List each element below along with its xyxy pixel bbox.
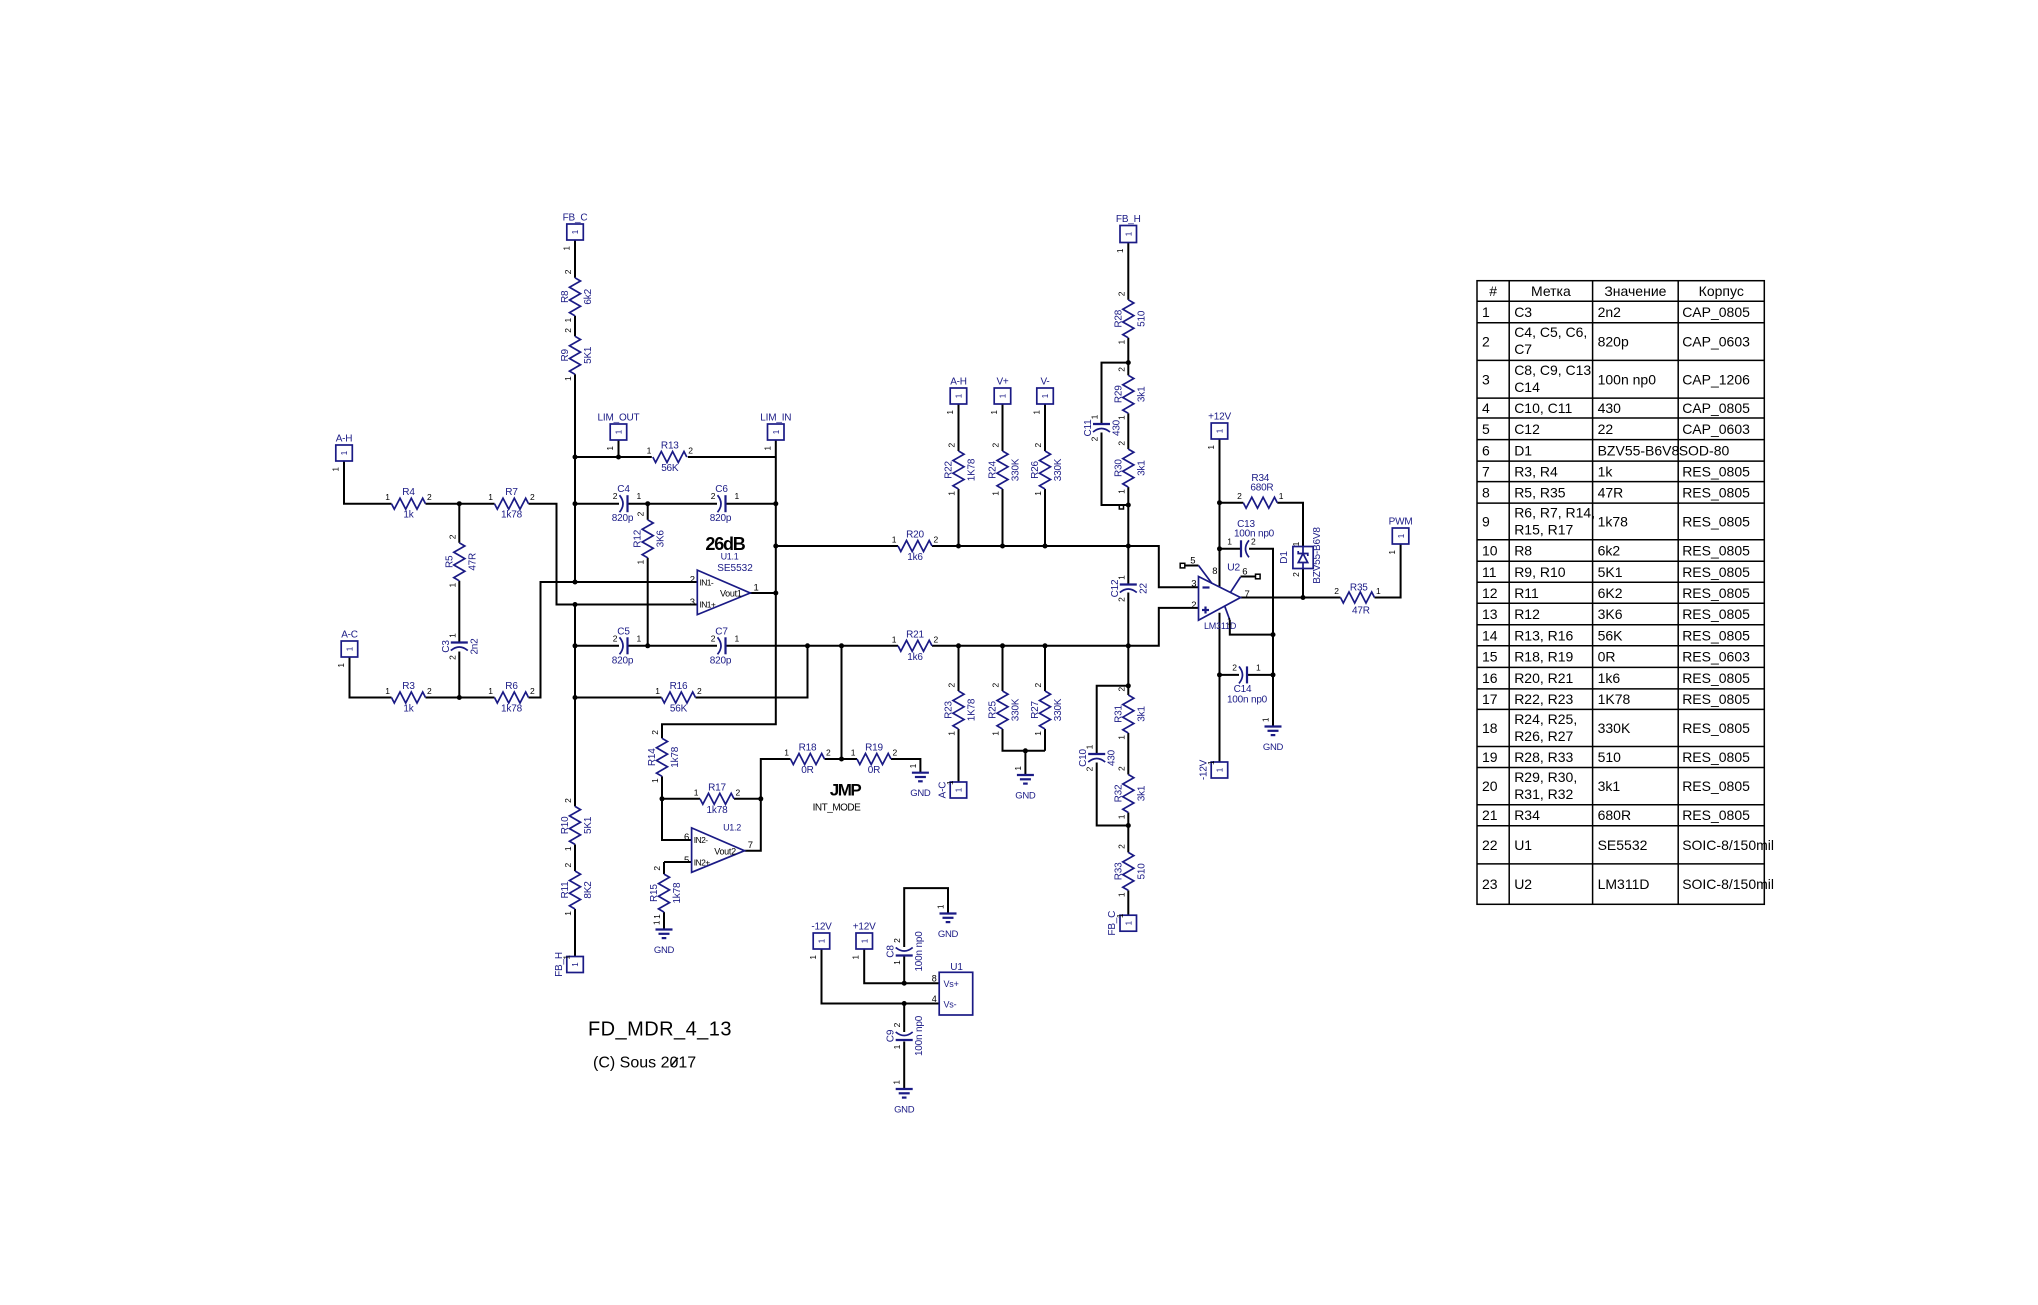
svg-text:1: 1 [1116,913,1125,918]
wire +12V to Vs+ [864,949,939,983]
svg-text:U1: U1 [950,962,963,973]
svg-text:8: 8 [1482,484,1490,500]
svg-text:1: 1 [1216,428,1225,433]
svg-text:1k6: 1k6 [907,552,923,563]
svg-text:20: 20 [1482,778,1498,794]
svg-text:1: 1 [385,492,390,502]
svg-text:1: 1 [694,787,699,797]
svg-text:GND: GND [910,788,931,799]
svg-text:1: 1 [1207,444,1216,449]
wire C4 to R12 node [629,503,648,505]
comparator U2 pin stubs [1199,566,1261,627]
svg-text:47R: 47R [1352,606,1370,617]
svg-text:GND: GND [894,1105,915,1116]
resistor R27 [1030,683,1064,736]
wire R26 to R20 line [1044,489,1046,546]
capacitor C8 [886,931,926,972]
svg-text:GND: GND [654,945,675,956]
svg-text:Vout2: Vout2 [714,846,736,856]
svg-text:RES_0805: RES_0805 [1682,691,1750,707]
wire LIM_OUT line left [575,456,652,458]
svg-text:1: 1 [990,409,999,414]
svg-text:2: 2 [947,443,957,448]
svg-text:CAP_0805: CAP_0805 [1682,304,1750,320]
svg-text:R31, R32: R31, R32 [1514,786,1573,802]
svg-text:510: 510 [1136,863,1147,880]
wire IN2+ entry [664,861,692,863]
resistor R25 [988,683,1022,736]
svg-text:1: 1 [784,748,789,758]
resistor R15 [649,866,683,919]
svg-text:23: 23 [1482,876,1498,892]
svg-text:SOIC-8/150mil: SOIC-8/150mil [1682,837,1774,853]
svg-text:LM311D: LM311D [1598,876,1650,892]
svg-text:3K6: 3K6 [1598,606,1623,622]
svg-text:2: 2 [1116,291,1126,296]
svg-text:1: 1 [1116,489,1126,494]
svg-text:6k2: 6k2 [583,288,594,304]
svg-text:1: 1 [1227,617,1232,627]
svg-text:2: 2 [1090,436,1100,441]
svg-text:2: 2 [826,748,831,758]
wire C11 bottom branch [1102,433,1129,506]
svg-text:FB_H: FB_H [1116,214,1141,225]
wire C13 right corner down [1249,549,1273,675]
svg-text:3k1: 3k1 [1136,386,1147,402]
svg-text:1: 1 [1216,767,1225,772]
svg-text:1: 1 [653,920,662,925]
svg-text:680R: 680R [1250,483,1273,494]
svg-text:10: 10 [1482,543,1498,559]
svg-text:2: 2 [711,491,716,501]
svg-text:1: 1 [763,445,772,450]
svg-text:R19: R19 [865,743,883,754]
svg-text:BZV55-B6V8: BZV55-B6V8 [1312,527,1323,584]
port A-H right [946,377,967,415]
wire A-H to R4 [344,461,392,504]
svg-text:V+: V+ [996,377,1008,388]
port A-C left [337,630,358,668]
svg-text:1k: 1k [1598,463,1614,479]
svg-text:R16: R16 [670,681,688,692]
port -12V bottom [809,922,832,960]
svg-text:U2: U2 [1227,561,1240,573]
svg-text:R22: R22 [944,460,955,478]
svg-text:R5, R35: R5, R35 [1514,484,1566,500]
svg-text:1: 1 [772,429,781,434]
svg-text:680R: 680R [1598,807,1631,823]
port LIM_OUT [598,413,640,451]
svg-text:U1.1: U1.1 [721,552,739,562]
svg-text:1: 1 [991,731,1001,736]
svg-text:C3: C3 [441,640,452,653]
svg-text:R8: R8 [560,290,571,303]
svg-text:1k78: 1k78 [707,805,729,816]
svg-text:R33: R33 [1113,862,1124,880]
svg-text:R28, R33: R28, R33 [1514,749,1573,765]
svg-text:IN2+: IN2+ [694,857,710,867]
svg-text:2: 2 [892,1022,902,1027]
port +12V right [1207,412,1231,450]
svg-text:GND: GND [938,929,959,940]
svg-text:R5: R5 [444,555,455,568]
svg-text:D1: D1 [1279,551,1290,564]
svg-text:2n2: 2n2 [469,638,480,655]
svg-text:1: 1 [1014,766,1023,771]
svg-text:1: 1 [447,583,457,588]
wire A-C to R3 [350,657,392,698]
wire R22 to R20 line [958,489,960,546]
svg-text:13: 13 [1482,606,1498,622]
wire +12V supply down [1219,439,1221,587]
svg-text:PWM: PWM [1389,517,1413,528]
wire FB_C to R8 [574,240,576,278]
svg-text:510: 510 [1598,749,1622,765]
svg-text:2: 2 [934,535,939,545]
svg-text:1k78: 1k78 [501,510,523,521]
svg-text:R23: R23 [944,700,955,718]
svg-text:R11: R11 [560,881,571,899]
capacitor C7 [710,626,740,666]
resistor R4 [385,487,432,521]
svg-text:820p: 820p [612,513,634,524]
svg-text:1: 1 [563,954,572,959]
svg-text:1: 1 [1227,536,1232,546]
svg-text:R20: R20 [906,530,924,541]
wire C6 to LIM_IN vertical [727,503,776,505]
wire R7 corner down to IN1+ [529,504,698,605]
svg-text:2: 2 [991,683,1001,688]
wire R21 line right [932,645,1128,647]
comparator U2 [1180,555,1250,631]
svg-text:1: 1 [852,954,861,959]
svg-text:C10: C10 [1078,748,1089,766]
svg-text:2: 2 [1116,367,1126,372]
svg-text:1: 1 [991,491,1001,496]
wire -12V to Vs- [822,949,940,1004]
svg-text:R26, R27: R26, R27 [1514,728,1573,744]
wire R20 line to C12 [1127,546,1129,584]
wire junction down from C7 line [841,646,843,759]
svg-text:2: 2 [613,633,618,643]
svg-text:1: 1 [488,686,493,696]
svg-text:1: 1 [893,1080,902,1085]
svg-text:(C) Sous 2017: (C) Sous 2017 [593,1055,696,1072]
svg-text:820p: 820p [1598,334,1629,350]
svg-text:6: 6 [684,832,689,843]
resistor R3 [385,681,432,715]
wire V- to R26 [1044,404,1046,451]
wire R25 top [1002,646,1004,691]
svg-text:12: 12 [1482,585,1498,601]
resistor R19 [851,743,898,777]
svg-text:2: 2 [1033,443,1043,448]
wire R6 corner up to IN1- [529,582,698,698]
ground U2 C14 [1262,717,1284,753]
svg-text:R28: R28 [1113,309,1124,327]
wire R31 to R32 [1127,733,1129,775]
resistor R17 [694,782,741,816]
port A-H left [332,434,353,472]
wire R4 to R7 [426,503,495,505]
svg-text:1: 1 [447,633,457,638]
svg-text:100n np0: 100n np0 [914,1015,925,1056]
svg-text:1: 1 [1041,393,1050,398]
svg-text:2: 2 [447,534,457,539]
svg-text:1K78: 1K78 [967,458,978,481]
svg-text:FB_C: FB_C [563,213,588,224]
svg-text:1: 1 [892,535,897,545]
C11 open pin square [1119,505,1123,509]
svg-text:22: 22 [1598,421,1614,437]
svg-text:2: 2 [563,269,573,274]
svg-text:2: 2 [1116,687,1126,692]
svg-text:R11: R11 [1514,585,1539,601]
svg-text:2: 2 [1116,441,1126,446]
svg-text:3k1: 3k1 [1136,706,1147,722]
svg-text:1: 1 [946,409,955,414]
svg-text:430: 430 [1112,419,1123,436]
svg-text:R15: R15 [649,884,660,902]
wire R15 top [663,862,665,874]
svg-text:2: 2 [947,683,957,688]
svg-text:C4: C4 [617,484,630,495]
resistor R8 [560,269,594,322]
svg-text:3k1: 3k1 [1136,460,1147,476]
svg-text:3k1: 3k1 [1598,778,1621,794]
svg-text:47R: 47R [1598,484,1624,500]
port +12V bottom [852,922,876,960]
svg-text:2: 2 [1334,586,1339,596]
svg-text:2: 2 [991,443,1001,448]
resistor R22 [944,443,978,496]
port V+ [990,377,1011,415]
svg-text:R29, R30,: R29, R30, [1514,769,1577,785]
svg-text:22: 22 [1482,837,1498,853]
svg-text:R12: R12 [633,529,644,547]
svg-text:2: 2 [711,633,716,643]
svg-text:C3: C3 [1514,304,1532,320]
svg-text:1: 1 [1090,414,1100,419]
svg-text:2: 2 [447,655,457,660]
svg-text:1: 1 [1376,586,1381,596]
port FB_H top right [1116,214,1141,253]
svg-text:2: 2 [893,748,898,758]
resistor R5 [444,534,478,587]
wire LIM_IN stub [775,440,777,457]
wire 26dB output line [776,545,898,547]
svg-text:R26: R26 [1030,460,1041,478]
svg-text:CAP_0805: CAP_0805 [1682,400,1750,416]
svg-text:100n np0: 100n np0 [1227,695,1268,706]
svg-text:2: 2 [1085,766,1095,771]
port A-C bottom [937,780,966,798]
svg-text:330K: 330K [1053,698,1064,721]
svg-text:Vs+: Vs+ [944,979,959,989]
svg-text:1: 1 [1125,920,1134,925]
wire R23 to A-C port [958,729,960,782]
svg-text:RES_0603: RES_0603 [1682,649,1750,665]
svg-text:RES_0805: RES_0805 [1682,513,1750,529]
svg-text:1: 1 [754,583,759,594]
resistor R16 [655,681,702,715]
wire R16 right corner up [696,646,808,698]
svg-text:C10, C11: C10, C11 [1514,400,1572,416]
wire R29 to R30 [1127,413,1129,449]
svg-text:1: 1 [851,748,856,758]
wire R8 to R9 [574,316,576,337]
svg-text:R35: R35 [1350,583,1368,594]
svg-text:1: 1 [892,960,902,965]
wire C4 line [575,503,619,505]
resistor R35 [1334,583,1381,617]
svg-text:1: 1 [650,778,660,783]
svg-text:A-H: A-H [950,377,967,388]
svg-text:RES_0805: RES_0805 [1682,606,1750,622]
wire D1 to output [1302,569,1304,598]
svg-text:R3, R4: R3, R4 [1514,463,1558,479]
svg-text:R7: R7 [505,487,518,498]
wire U1.2 output to R18 [745,759,791,851]
svg-text:SOIC-8/150mil: SOIC-8/150mil [1682,876,1774,892]
svg-text:1k6: 1k6 [1598,670,1621,686]
svg-text:100n np0: 100n np0 [914,931,925,972]
svg-text:2: 2 [1237,491,1242,501]
zener diode D1 [1279,527,1323,584]
wire R21 line to R31 [1127,646,1129,695]
svg-text:4: 4 [932,994,937,1004]
title text [588,1018,732,1071]
svg-text:1: 1 [892,634,897,644]
wire C9 top [903,1004,905,1033]
svg-text:2: 2 [652,866,662,871]
svg-text:C8, C9, C13: C8, C9, C13 [1514,362,1591,378]
svg-text:R24: R24 [988,460,999,478]
svg-text:1: 1 [337,662,346,667]
svg-text:1: 1 [563,318,573,323]
svg-text:14: 14 [1482,627,1498,643]
svg-text:1: 1 [332,466,341,471]
wire R12 to C7 [648,645,717,647]
svg-text:2: 2 [736,787,741,797]
wire R5 to C3 [458,581,460,642]
resistor R31 [1113,687,1147,740]
svg-text:R8: R8 [1514,543,1532,559]
svg-text:15: 15 [1482,649,1498,665]
svg-text:RES_0805: RES_0805 [1682,463,1750,479]
svg-text:56K: 56K [661,463,679,474]
svg-text:2: 2 [1116,766,1126,771]
wire U1.1 output [750,592,776,594]
svg-text:330K: 330K [1598,720,1631,736]
svg-text:IN1-: IN1- [700,577,714,587]
svg-text:3: 3 [1191,578,1196,589]
svg-text:1: 1 [346,646,355,651]
svg-text:2: 2 [1116,844,1126,849]
svg-text:R31: R31 [1113,704,1124,722]
svg-text:2: 2 [530,492,535,502]
svg-text:2: 2 [1116,597,1126,602]
svg-text:R10: R10 [560,816,571,834]
capacitor C4 [612,484,642,524]
svg-text:1: 1 [809,954,818,959]
svg-text:2: 2 [697,686,702,696]
resistor R18 [784,743,831,777]
svg-text:0R: 0R [1598,649,1616,665]
svg-text:1: 1 [1116,415,1126,420]
ground C9 [893,1080,915,1116]
wire R27 top [1044,646,1046,691]
capacitor C6 [710,484,740,524]
wire C5 to R12 [629,645,648,647]
wire R20 to U2 pin3 [932,546,1199,587]
svg-text:330K: 330K [1011,458,1022,481]
svg-text:2: 2 [1191,600,1196,611]
port LIM_IN [760,413,791,451]
wire GND stem R25 R27 [1024,751,1026,775]
wire R17 left stub [662,798,700,800]
svg-text:330K: 330K [1053,458,1064,481]
svg-text:1: 1 [1116,575,1126,580]
svg-text:+12V: +12V [1208,412,1231,423]
svg-text:R13, R16: R13, R16 [1514,627,1573,643]
svg-text:CAP_0603: CAP_0603 [1682,334,1750,350]
svg-text:1: 1 [563,846,573,851]
svg-text:56K: 56K [670,704,688,715]
wire LIM_IN vertical [662,457,776,738]
svg-text:R32: R32 [1113,784,1124,802]
svg-text:1k78: 1k78 [672,882,683,904]
resistor R6 [488,681,535,715]
wire C9 to GND [903,1042,905,1090]
svg-text:C8: C8 [886,945,897,958]
svg-text:2n2: 2n2 [1598,304,1622,320]
svg-text:GND: GND [1015,791,1036,802]
svg-text:1: 1 [615,429,624,434]
svg-text:1: 1 [1116,892,1126,897]
svg-text:2: 2 [636,511,646,516]
svg-text:2: 2 [650,730,660,735]
wire C13 left [1220,548,1241,550]
wire U2 pin1 jog [1230,620,1273,635]
wire R27 bottom [1044,729,1046,751]
svg-text:0R: 0R [868,765,880,776]
capacitor C5 [612,626,642,666]
svg-text:JMP: JMP [830,781,862,800]
svg-text:1: 1 [571,962,580,967]
ground R25 R27 [1014,766,1036,802]
resistor R32 [1113,766,1147,819]
wire R23 top [958,646,960,691]
wire R32 to R33 [1127,813,1129,853]
svg-text:1: 1 [999,393,1008,398]
svg-text:+12V: +12V [853,922,876,933]
svg-text:1: 1 [563,376,573,381]
wire R12 top [647,504,649,520]
svg-text:RES_0805: RES_0805 [1682,720,1750,736]
svg-text:R20, R21: R20, R21 [1514,670,1573,686]
svg-text:C14: C14 [1234,684,1252,695]
svg-text:5: 5 [1482,421,1490,437]
port -12V right [1198,759,1227,780]
svg-text:1: 1 [735,491,740,501]
svg-text:1: 1 [892,1044,902,1049]
svg-text:1: 1 [636,560,646,565]
svg-text:2: 2 [688,446,693,456]
wire C3 to R3 line [458,652,460,698]
wire R35 to PWM [1375,545,1401,598]
svg-text:1: 1 [1033,731,1043,736]
